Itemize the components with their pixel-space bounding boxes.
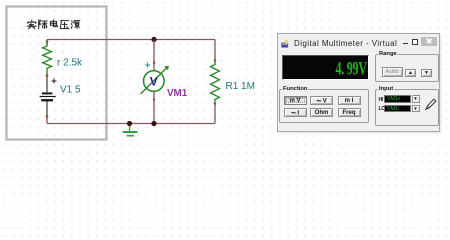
- value label R1 1M: [226, 81, 255, 92]
- value label V1 5: [60, 85, 81, 96]
- pin dot r top: [46, 40, 49, 43]
- junction top (VM1 tap): [151, 37, 156, 42]
- button mV (selected): [284, 96, 307, 106]
- label VM1: [167, 88, 188, 99]
- glyph 源: [71, 21, 80, 29]
- plus mark of VM1: [145, 63, 150, 68]
- value label r 2.5k: [57, 58, 83, 69]
- svg-text:V: V: [150, 75, 158, 89]
- voltmeter VM1 body: [141, 66, 169, 94]
- wire bottom horizontal (node 0): [47, 123, 215, 125]
- svg-text:V1 5: V1 5: [60, 85, 81, 96]
- battery V1 lead top: [46, 77, 48, 92]
- junction bottom (VM1 tap): [151, 121, 156, 126]
- probe/pencil icon: [424, 98, 437, 111]
- subcircuit box (actual voltage source boundary): [7, 7, 107, 140]
- combo HI: [384, 95, 411, 103]
- combo LO: [384, 105, 411, 113]
- V glyph of meter: [150, 75, 158, 89]
- wire VM1 top lead: [153, 40, 155, 71]
- Input group: [375, 89, 439, 126]
- resistor r (2.5k): [43, 42, 52, 75]
- pin dot VM1 top: [153, 62, 155, 64]
- title bar icon: [281, 40, 289, 48]
- resistor R1 (1M): [211, 60, 220, 103]
- label 实际电压源 (drawn strokes): [27, 20, 79, 29]
- close button: [421, 37, 437, 46]
- pin dot battery bottom: [46, 115, 48, 117]
- Function group: [279, 89, 369, 123]
- label HI: [379, 97, 384, 103]
- maximize button: [412, 39, 419, 45]
- button Freq: [338, 108, 361, 118]
- button mI: [338, 96, 361, 106]
- range up button: [405, 69, 416, 78]
- pin dot R1 bottom: [214, 103, 216, 105]
- circuit schematic canvas: [0, 0, 450, 150]
- wire top horizontal (node +): [47, 39, 215, 41]
- svg-text:r 2.5k: r 2.5k: [57, 58, 83, 69]
- glyph 实: [27, 20, 36, 29]
- LCD display: [282, 55, 369, 80]
- wire left vertical top stub: [46, 40, 48, 46]
- svg-text:R1 1M: R1 1M: [226, 81, 255, 92]
- Range group: [375, 54, 439, 82]
- pin dot VM1 bottom: [153, 98, 155, 100]
- button ~I: [284, 108, 307, 118]
- plus mark of battery: [52, 79, 57, 84]
- battery V1 lead bottom: [46, 101, 48, 116]
- combo LO dropdown button: [412, 105, 420, 113]
- wire left vertical bottom: [46, 117, 48, 124]
- ground symbol: [123, 126, 138, 136]
- Auto button: [382, 67, 403, 77]
- minimize button: [403, 43, 408, 44]
- title text: [294, 39, 397, 48]
- wire right vertical top: [214, 40, 216, 61]
- pin dot R1 top: [214, 59, 216, 61]
- wire right vertical bottom: [214, 104, 216, 124]
- battery V1 plates: [40, 92, 56, 101]
- svg-text:VM1: VM1: [167, 88, 188, 99]
- pin dot r bottom: [46, 75, 48, 77]
- instrument window: Digital Multimeter - Virtual: [277, 33, 440, 132]
- button ~V: [310, 96, 333, 106]
- glyph 压: [60, 21, 69, 29]
- glyph 际: [39, 20, 47, 29]
- button Ohm: [310, 108, 333, 118]
- wire VM1 bottom lead: [153, 92, 155, 124]
- junction ground: [127, 121, 132, 126]
- combo HI dropdown button: [412, 95, 420, 103]
- label LO: [379, 106, 386, 112]
- glyph 电: [50, 20, 57, 27]
- range down button: [421, 69, 432, 78]
